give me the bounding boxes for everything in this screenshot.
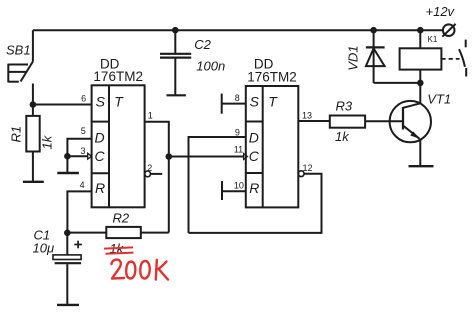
svg-text:6: 6 xyxy=(81,93,86,103)
svg-text:100n: 100n xyxy=(196,59,225,74)
svg-text:R1: R1 xyxy=(9,126,24,143)
transistor VT1 xyxy=(390,83,431,166)
svg-text:D: D xyxy=(94,129,104,145)
svg-text:12: 12 xyxy=(303,163,313,173)
svg-text:8: 8 xyxy=(235,93,240,103)
svg-text:10μ: 10μ xyxy=(33,240,55,255)
svg-text:R: R xyxy=(249,180,259,196)
svg-text:10: 10 xyxy=(234,180,244,190)
svg-text:D: D xyxy=(249,129,259,145)
svg-text:13: 13 xyxy=(302,110,312,120)
clock triangle U1 xyxy=(88,153,92,159)
svg-text:S: S xyxy=(250,94,260,110)
svg-text:VT1: VT1 xyxy=(427,92,451,107)
wire to pin 6 xyxy=(33,104,92,106)
op flip-flop U1 body DD 176TM2 xyxy=(92,85,145,207)
pin 5 wire (U1 D) xyxy=(67,139,91,156)
flip-flop U2 body DD 176TM2 xyxy=(246,86,298,207)
wire feedback Q2 to D2 xyxy=(189,174,322,233)
capacitor C1 xyxy=(64,230,71,237)
node junction SB1/R1/pin6 xyxy=(30,101,37,108)
pin 4 wire (U1 R) xyxy=(67,191,91,232)
svg-text:C2: C2 xyxy=(194,37,211,52)
pin 13 wire (U2 Q) xyxy=(298,120,330,122)
pin 8 stub with bar (U2 S) xyxy=(222,94,246,114)
svg-text:176TM2: 176TM2 xyxy=(247,69,297,84)
red handwritten 200K xyxy=(112,260,169,280)
wire to ground from node xyxy=(66,156,68,173)
svg-text:R2: R2 xyxy=(113,211,130,226)
svg-text:11: 11 xyxy=(234,144,243,154)
ground bar near U1 xyxy=(57,172,79,174)
pin 2 inversion circle (U1) xyxy=(145,171,151,177)
svg-text:SB1: SB1 xyxy=(6,42,31,57)
wire node to pin 11 xyxy=(169,156,244,158)
svg-text:S: S xyxy=(96,94,106,110)
svg-text:T: T xyxy=(268,94,278,110)
capacitor C2 xyxy=(172,27,179,34)
svg-text:5: 5 xyxy=(81,126,86,136)
svg-text:1: 1 xyxy=(148,110,153,120)
svg-text:K1: K1 xyxy=(428,35,438,44)
resistor R2 xyxy=(67,227,169,238)
svg-text:2: 2 xyxy=(147,163,152,173)
svg-text:3: 3 xyxy=(80,146,85,156)
red strike lines xyxy=(104,247,134,253)
relay contact K1.1 xyxy=(441,40,466,77)
relay coil K1 xyxy=(417,27,424,34)
plus sign of C1 xyxy=(74,241,82,249)
power terminal +12v xyxy=(442,24,455,37)
ground for C1 xyxy=(57,304,79,306)
pin 11 clock triangle (U2) xyxy=(244,154,248,160)
node junction Q1 to C2 pin11 xyxy=(166,153,173,160)
pin 10 stub with bar (U2 R) xyxy=(222,181,246,200)
svg-text:C: C xyxy=(94,148,105,164)
svg-text:+12v: +12v xyxy=(426,4,456,19)
svg-text:1k: 1k xyxy=(40,134,55,149)
diode VD1 xyxy=(370,27,377,34)
svg-text:VD1: VD1 xyxy=(346,46,361,71)
svg-text:R: R xyxy=(95,180,105,196)
pin 12 inversion circle (U2) xyxy=(298,171,304,177)
svg-text:9: 9 xyxy=(235,127,240,137)
svg-text:C: C xyxy=(249,148,260,164)
pin 3 wire (U1 C) xyxy=(67,155,87,157)
resistor R1 xyxy=(26,105,39,182)
pin 2 stub wire xyxy=(151,173,163,175)
pushbutton SB1 xyxy=(8,30,33,104)
ground for R1 xyxy=(23,181,44,183)
svg-text:4: 4 xyxy=(80,180,85,190)
wire top power rail xyxy=(33,29,443,31)
svg-text:1k: 1k xyxy=(335,129,350,144)
pin 1 wire (U1 Q) xyxy=(145,122,169,233)
node junction pin3/pin5/ground xyxy=(64,153,71,160)
ground for VT1 emitter xyxy=(409,165,434,167)
svg-text:T: T xyxy=(114,94,124,110)
resistor R3 xyxy=(330,116,403,128)
svg-text:R3: R3 xyxy=(336,99,353,114)
node relay/diode/collector xyxy=(417,80,424,87)
pin 9 wire (U2 D) xyxy=(189,137,246,233)
svg-text:176TM2: 176TM2 xyxy=(93,69,143,84)
